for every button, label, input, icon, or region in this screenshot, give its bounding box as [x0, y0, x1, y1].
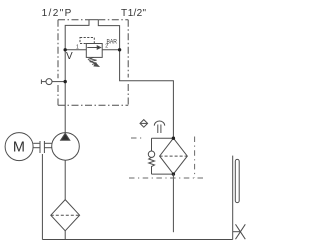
svg-text:1/2": 1/2" [128, 8, 147, 19]
relief valve spring + adjust arrow [88, 57, 97, 65]
svg-text:M: M [13, 140, 25, 156]
pump outlet triangle [61, 133, 70, 140]
relief valve flow arrow [87, 47, 97, 49]
tank left wall [41, 154, 43, 240]
breather [154, 121, 164, 126]
manifold enclosure (dash-dot box) [58, 20, 128, 106]
level gauge [235, 159, 239, 202]
suction strainer diamond [51, 200, 80, 231]
node P-relief tee [63, 48, 66, 51]
svg-text:T: T [121, 8, 127, 19]
wire relief valve branch [65, 49, 86, 51]
node filter bottom [172, 172, 175, 175]
pump circle [52, 133, 80, 161]
node T-relief tee [118, 48, 121, 51]
wire return line into tank [172, 174, 174, 232]
drain plug diamond [140, 120, 148, 128]
svg-text:BAR: BAR [107, 38, 118, 45]
wire P line (pump to manifold P port) [65, 20, 89, 133]
filter unit dash-dot enclosure [129, 137, 204, 179]
tank bottom [42, 239, 232, 241]
drain valve X [233, 231, 241, 233]
return filter diamond [160, 138, 188, 174]
coupling motor-pump [33, 142, 40, 144]
node filter top [172, 137, 175, 140]
wire T line (T port to return filter) [98, 20, 173, 139]
return filter bypass branch [152, 137, 174, 139]
motor M circle [5, 133, 33, 161]
wire strainer to tank bottom [64, 231, 66, 240]
relief valve pilot (dashed box) [80, 38, 94, 44]
node test point tee [63, 80, 66, 83]
bypass valve ball [148, 151, 154, 157]
wire pump suction line [64, 160, 66, 199]
tank right wall [232, 156, 234, 240]
test point stub + plug [40, 79, 42, 84]
relief valve V body [86, 44, 102, 58]
bypass spring [149, 157, 155, 174]
svg-text:1/2"P: 1/2"P [42, 8, 73, 19]
svg-text:1: 1 [76, 44, 79, 50]
port P/T window on manifold top [89, 19, 98, 21]
svg-text:V: V [66, 51, 73, 62]
